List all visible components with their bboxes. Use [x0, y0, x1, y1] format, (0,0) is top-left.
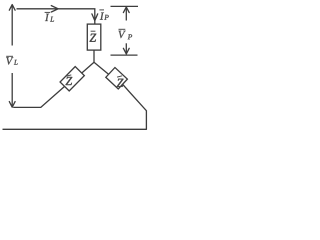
label Z2 value [66, 75, 73, 85]
arrowhead current I_L on top line [51, 6, 58, 12]
arrowhead current I_P pointing down [92, 14, 98, 21]
label I_L [45, 12, 54, 21]
wire top line with corner down to Z1 [17, 9, 95, 24]
wire left diagonal from star node into Z2 [75, 62, 94, 79]
label V_P [118, 29, 132, 39]
label Z3 value [117, 76, 124, 87]
wire right diagonal from star node into Z3 [94, 62, 112, 77]
voltage V_P dimension annotation (phase voltage) [111, 6, 139, 55]
wire from Z2 to bottom-left corner then horizontal to left phase [13, 82, 70, 108]
impedance Z2 (left tilted box) [60, 67, 84, 91]
wire from Z3 down-right, corner, to bottom line [117, 78, 146, 129]
impedance Z1 (top vertical box) [87, 24, 101, 50]
label V_L [6, 56, 17, 64]
label I_P [99, 10, 108, 20]
label Z1 value [90, 31, 97, 42]
wire bottom line [3, 128, 147, 130]
impedance Z3 (right tilted box) [106, 68, 128, 89]
voltage V_L double-headed arrow (line voltage) [9, 5, 15, 108]
wire stub from Z1 to star node [93, 50, 95, 62]
